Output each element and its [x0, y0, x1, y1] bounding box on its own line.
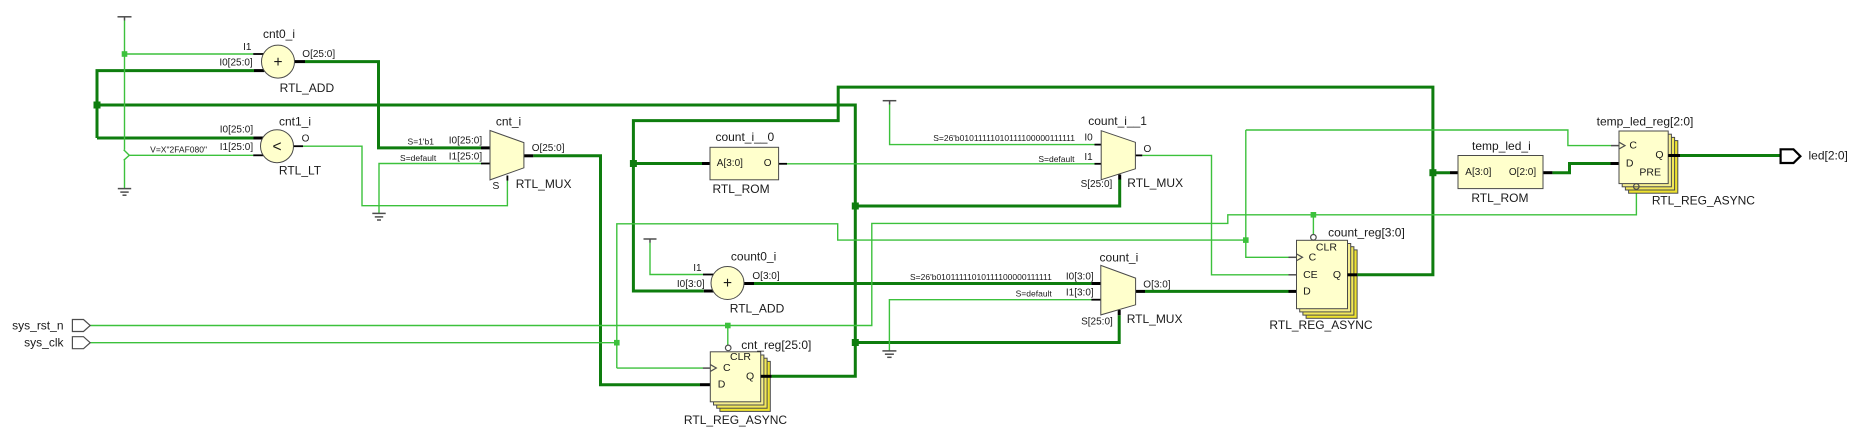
wire cnt_i.O to cnt_reg.D [533, 156, 700, 385]
svg-text:count_reg[3:0]: count_reg[3:0] [1328, 226, 1405, 240]
svg-text:S=default: S=default [1016, 289, 1053, 299]
junction const1 to cnt0_i.I1 [122, 51, 128, 57]
register temp_led_reg[2:0] (RTL_REG_ASYNC) [1597, 114, 1756, 207]
ground symbol below V=X"2FAF080" branch [118, 189, 131, 196]
svg-text:+: + [273, 54, 282, 71]
svg-text:C: C [1629, 140, 1637, 152]
svg-text:D: D [718, 379, 726, 391]
svg-text:O: O [764, 158, 772, 169]
svg-text:S: S [492, 180, 499, 192]
wire count_i.O to count_reg.D [1145, 290, 1289, 293]
svg-text:O: O [302, 134, 310, 145]
junction sys_rst_n to count_reg.CLR [1311, 212, 1317, 218]
svg-text:RTL_REG_ASYNC: RTL_REG_ASYNC [684, 413, 787, 427]
wire gnd to cnt_i.I1 [379, 164, 481, 214]
wire cnt1_i.O to cnt_i.S [303, 146, 507, 206]
input port sys_rst_n [12, 319, 90, 333]
power symbol (const) above cnt0_i [118, 17, 132, 21]
junction cnt feedback to count_i__1.S [852, 203, 859, 210]
svg-text:I1[25:0]: I1[25:0] [449, 151, 483, 162]
svg-text:cnt_i: cnt_i [496, 115, 521, 129]
junction count feedback to count_i__0.A [630, 160, 637, 167]
svg-text:RTL_MUX: RTL_MUX [516, 177, 572, 191]
wire power bar to count0_i.I1 [650, 243, 703, 275]
svg-text:RTL_MUX: RTL_MUX [1127, 176, 1183, 190]
svg-text:I1: I1 [243, 42, 252, 53]
wire net cnt_reg[25:0] feedback bus (Q to cnt0_i.I0, cnt1_i.I0, count_i.S, count_i__1.S) [97, 71, 1120, 377]
svg-text:I1[25:0]: I1[25:0] [220, 142, 254, 153]
svg-text:I0[25:0]: I0[25:0] [449, 135, 483, 146]
svg-text:count_i__1: count_i__1 [1088, 114, 1147, 128]
svg-text:O[3:0]: O[3:0] [1143, 280, 1170, 291]
adder count0_i (RTL_ADD) [677, 250, 785, 316]
svg-text:count_i__0: count_i__0 [715, 130, 774, 144]
junction sys_clk branch to count_reg.C / temp_led_reg.C [1243, 237, 1249, 243]
mux count_i (RTL_MUX) [910, 250, 1182, 327]
wire gnd to count_i.I1 [889, 300, 1091, 351]
output port led[2:0] [1781, 148, 1848, 163]
power symbol above count0_i [644, 239, 657, 243]
wire temp_led_reg.Q to led port [1680, 154, 1781, 157]
wire power bar to count_i__1.I0 [890, 105, 1095, 145]
mux cnt_i (RTL_MUX) [400, 115, 571, 192]
svg-text:I0[25:0]: I0[25:0] [220, 125, 254, 136]
comparator cnt1_i (RTL_LT) [150, 114, 322, 177]
svg-text:RTL_REG_ASYNC: RTL_REG_ASYNC [1269, 318, 1372, 332]
wire const1/const net from power bar through cnt0_i.I1 and V=X"2FAF080" to gnd [124, 21, 254, 189]
svg-text:S=1'b1: S=1'b1 [408, 136, 435, 146]
register cnt_reg[25:0] (RTL_REG_ASYNC) [684, 338, 811, 427]
junction count feedback to temp_led_i.A [1429, 169, 1436, 176]
svg-text:O[3:0]: O[3:0] [752, 271, 779, 282]
svg-text:RTL_REG_ASYNC: RTL_REG_ASYNC [1652, 193, 1755, 207]
wire count_i__1.O to count_reg.CE [1142, 155, 1288, 274]
svg-text:led[2:0]: led[2:0] [1809, 148, 1848, 162]
svg-text:Q: Q [1333, 269, 1341, 281]
svg-text:S=default: S=default [1038, 154, 1075, 164]
junction sys_clk at port branch [614, 340, 620, 346]
svg-text:RTL_ROM: RTL_ROM [1471, 191, 1528, 205]
svg-text:I1[3:0]: I1[3:0] [1066, 287, 1094, 298]
svg-text:RTL_ROM: RTL_ROM [712, 182, 769, 196]
svg-text:S=default: S=default [400, 153, 437, 163]
svg-text:S[25:0]: S[25:0] [1081, 179, 1113, 190]
rom temp_led_i (RTL_ROM) [1450, 139, 1552, 205]
rom count_i__0 (RTL_ROM) [702, 130, 787, 196]
svg-text:sys_clk: sys_clk [24, 336, 64, 350]
input port sys_clk [24, 336, 90, 350]
svg-text:CLR: CLR [1316, 242, 1337, 254]
svg-text:temp_led_i: temp_led_i [1472, 139, 1531, 153]
svg-text:S=26'b010111110101111000001111: S=26'b01011111010111100000111111 [933, 133, 1075, 143]
svg-text:I1: I1 [693, 263, 702, 274]
svg-text:<: < [272, 138, 281, 155]
svg-text:PRE: PRE [1639, 167, 1661, 179]
wire sys_clk net to cnt_reg.C, count_reg.C, temp_led_reg.C [90, 130, 1611, 368]
svg-text:+: + [723, 275, 732, 292]
mux count_i__1 (RTL_MUX) [933, 114, 1183, 190]
svg-text:O[2:0]: O[2:0] [1509, 167, 1536, 178]
svg-text:count0_i: count0_i [731, 250, 776, 264]
register count_reg[3:0] (RTL_REG_ASYNC) [1269, 226, 1404, 332]
svg-text:Q: Q [1655, 149, 1663, 161]
svg-text:temp_led_reg[2:0]: temp_led_reg[2:0] [1597, 114, 1694, 128]
svg-text:CE: CE [1303, 269, 1318, 281]
svg-text:RTL_ADD: RTL_ADD [730, 301, 785, 315]
wire count_i__0.O to count_i__1.I1 [787, 163, 1095, 165]
svg-text:O: O [1144, 144, 1152, 155]
wire temp_led_i.O to temp_led_reg.D [1552, 164, 1610, 173]
svg-text:D: D [1303, 285, 1311, 297]
junction on cnt_reg feedback at left [94, 102, 101, 109]
svg-text:cnt_reg[25:0]: cnt_reg[25:0] [741, 338, 811, 352]
junction sys_rst_n to cnt_reg.CLR [725, 323, 731, 329]
svg-text:A[3:0]: A[3:0] [717, 158, 743, 169]
svg-text:RTL_MUX: RTL_MUX [1127, 312, 1183, 326]
svg-text:RTL_ADD: RTL_ADD [280, 81, 335, 95]
svg-text:cnt0_i: cnt0_i [263, 27, 295, 41]
wire count0_i.O to count_i.I0 [754, 282, 1091, 285]
svg-text:O[25:0]: O[25:0] [302, 49, 335, 60]
svg-text:A[3:0]: A[3:0] [1465, 167, 1491, 178]
svg-text:C: C [1309, 251, 1317, 263]
svg-text:V=X"2FAF080": V=X"2FAF080" [150, 144, 207, 154]
power symbol above count_i__1 [883, 101, 897, 105]
svg-text:S[25:0]: S[25:0] [1081, 317, 1113, 328]
svg-text:CLR: CLR [730, 351, 751, 363]
wire sys_rst_n net to cnt_reg.CLR, count_reg.CLR, temp_led_reg.PRE [90, 189, 1636, 346]
svg-text:S=26'b010111110101111000001111: S=26'b01011111010111100000111111 [910, 272, 1052, 282]
ground symbol for cnt_i.I1 [372, 213, 385, 220]
adder cnt0_i (RTL_ADD) [219, 27, 335, 95]
svg-text:sys_rst_n: sys_rst_n [12, 319, 63, 333]
svg-text:count_i: count_i [1100, 250, 1139, 264]
ground symbol for count_i.I1 [882, 351, 896, 357]
svg-text:D: D [1626, 158, 1634, 170]
svg-text:I0[3:0]: I0[3:0] [1066, 272, 1094, 283]
svg-text:I1: I1 [1084, 152, 1093, 163]
svg-text:Q: Q [746, 370, 754, 382]
wire net count_reg[3:0] feedback bus (Q to temp_led_i.A, count_i__0.A, count0_i.I0) [633, 87, 1450, 291]
svg-text:cnt1_i: cnt1_i [279, 114, 311, 128]
svg-text:I0[25:0]: I0[25:0] [219, 58, 253, 69]
svg-text:RTL_LT: RTL_LT [279, 164, 322, 178]
svg-text:I0[3:0]: I0[3:0] [677, 279, 705, 290]
junction cnt feedback to count_i.S [852, 339, 859, 346]
svg-text:C: C [723, 362, 731, 374]
svg-text:O[25:0]: O[25:0] [532, 143, 565, 154]
svg-text:I0: I0 [1084, 133, 1093, 144]
wire cnt0_i.O to cnt_i.I0 [305, 62, 481, 148]
